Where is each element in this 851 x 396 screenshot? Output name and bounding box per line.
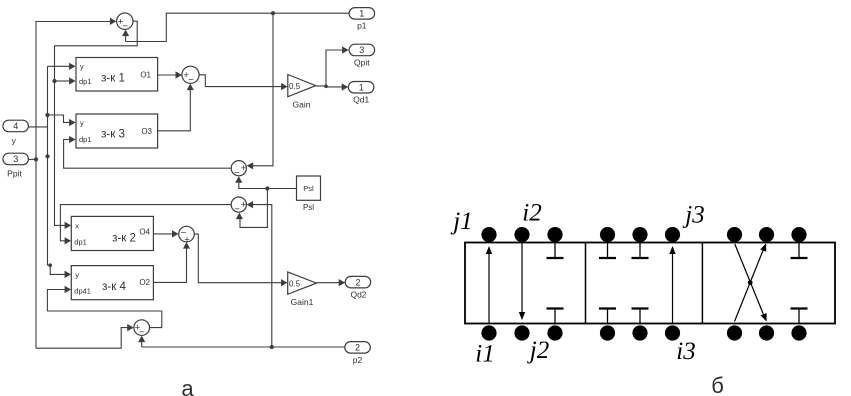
contact dots bottom row <box>481 325 806 340</box>
block B3 (з-к 3) <box>76 114 158 148</box>
wire S2 output to Gain input <box>199 75 288 90</box>
svg-text:−: − <box>234 168 240 179</box>
wire p1 net to S1 minus input <box>122 30 129 42</box>
input port 4 (y) <box>3 120 29 145</box>
svg-text:Qd2: Qd2 <box>350 290 366 300</box>
wire y-rail to B4 y input <box>48 265 72 278</box>
svg-text:O1: O1 <box>140 71 151 80</box>
svg-text:Qd1: Qd1 <box>353 95 369 105</box>
svg-text:−: − <box>188 75 194 86</box>
svg-text:0.5: 0.5 <box>289 280 301 289</box>
output port 2 (Qd2) <box>345 276 371 299</box>
label i1 <box>475 341 494 368</box>
wire Gain output junction <box>316 85 328 89</box>
wire Ppit port stub <box>29 158 37 160</box>
terminal stub bottom 2b <box>632 309 649 324</box>
wire Psl to S4 minus input <box>236 189 268 228</box>
svg-text:Psl: Psl <box>303 184 314 193</box>
svg-text:y: y <box>12 136 17 146</box>
svg-text:dp1: dp1 <box>79 135 92 144</box>
wire S3 output to B3 dp1 input <box>64 136 232 168</box>
node p2 junction <box>270 345 274 349</box>
svg-text:dp1: dp1 <box>74 238 87 247</box>
svg-text:Qpit: Qpit <box>354 58 370 68</box>
terminal stub top 2a <box>599 243 616 259</box>
wire Gain to Qd1 port <box>326 83 348 90</box>
label i2 <box>522 200 541 227</box>
wire p2 to S6 minus input <box>138 336 145 347</box>
svg-text:Gain: Gain <box>293 100 311 110</box>
terminal stub bottom 2a <box>599 309 616 324</box>
wire S5 output to Gain1 input <box>194 234 287 286</box>
svg-text:y: y <box>75 271 79 280</box>
wire p1 net horizontal <box>126 13 349 41</box>
output port 2 (p2) <box>345 342 371 365</box>
svg-text:O4: O4 <box>139 228 150 237</box>
commutator body rectangle <box>465 243 835 324</box>
label a <box>181 376 194 396</box>
wire O4 to S5 left input <box>153 230 178 237</box>
node y-rail bottom corner <box>48 263 52 267</box>
wire O3 to S2 minus input <box>158 84 194 131</box>
svg-text:2: 2 <box>355 277 360 287</box>
output port 1 (Qd1) <box>348 82 374 105</box>
up arrow i3-j3 <box>669 246 675 324</box>
node Ppit junction <box>34 157 38 161</box>
node y-rail junction lower <box>45 154 49 158</box>
wire Gain to Qpit port <box>326 46 349 86</box>
up arrow j1-i1 <box>486 246 492 324</box>
svg-text:1: 1 <box>359 9 364 19</box>
section divider 1 <box>585 243 587 324</box>
cross junction <box>748 280 753 285</box>
section divider 2 <box>701 243 703 324</box>
svg-text:2: 2 <box>355 343 360 353</box>
wire S6 output to B4 dp41 input <box>47 286 161 328</box>
block B2 (з-к 2) <box>71 216 153 250</box>
wire y-rail to B1 y input <box>48 63 76 70</box>
svg-text:0.5: 0.5 <box>289 82 301 91</box>
svg-text:p1: p1 <box>357 21 367 31</box>
svg-text:i1: i1 <box>475 341 494 368</box>
label i3 <box>676 338 695 365</box>
sum block S3 <box>231 161 246 179</box>
wire y-rail to B3 y input <box>48 115 76 126</box>
svg-text:Ppit: Ppit <box>7 169 22 179</box>
wire y-rail vertical <box>47 66 49 265</box>
block B4 (з-к 4) <box>71 266 153 300</box>
svg-text:dp41: dp41 <box>74 287 91 296</box>
terminal stub top 3c <box>791 243 808 259</box>
svg-text:3: 3 <box>13 154 18 164</box>
svg-text:з-к 2: з-к 2 <box>112 233 136 245</box>
wire Ppit rail to S6 left input <box>36 324 134 348</box>
svg-text:j1: j1 <box>450 208 472 235</box>
label j3 <box>682 201 704 228</box>
wire p2 net horizontal <box>142 346 345 348</box>
wire dp1 rail to B1 dp1 input <box>55 77 76 84</box>
wire p1 feedback to S3 right input <box>247 13 273 169</box>
svg-text:з-к 3: з-к 3 <box>101 129 125 141</box>
svg-text:+: + <box>241 163 247 174</box>
svg-text:а: а <box>181 376 194 396</box>
wire S4 output to B2 dp1 input <box>60 205 231 245</box>
label b <box>711 373 724 396</box>
svg-text:dp1: dp1 <box>79 77 92 86</box>
terminal stub top 2b <box>632 243 649 259</box>
contact dots top row <box>481 227 806 242</box>
output port 1 (p1) <box>349 8 375 31</box>
svg-text:O2: O2 <box>139 278 150 287</box>
wire S1 output to dp1 rail <box>55 21 138 229</box>
input port 3 (Ppit) <box>3 153 29 178</box>
sum block S4 <box>231 197 246 215</box>
node y-rail junction B3 <box>45 113 49 117</box>
wire p2 feedback to S4 right input <box>247 201 272 347</box>
output port 3 (Qpit) <box>349 44 375 67</box>
gain block Gain (0.5) <box>288 75 316 110</box>
node dp1 rail junction <box>52 79 56 83</box>
svg-text:4: 4 <box>13 121 18 131</box>
node p1 junction <box>271 11 275 15</box>
label j2 <box>527 337 549 364</box>
wire O2 to S5 bottom input <box>153 242 190 282</box>
gain block Gain1 (0.5) <box>288 272 317 307</box>
svg-text:з-к 1: з-к 1 <box>101 73 125 85</box>
svg-text:y: y <box>80 62 84 71</box>
wire Psl output to S3 minus input <box>235 176 296 188</box>
wire Ppit rail to S1 plus input <box>36 18 116 348</box>
svg-text:y: y <box>80 119 84 128</box>
svg-text:+: + <box>241 199 247 210</box>
svg-text:j2: j2 <box>527 337 549 364</box>
terminal stub top 1c <box>547 243 564 259</box>
svg-text:б: б <box>711 373 724 396</box>
svg-text:Psl: Psl <box>303 203 314 212</box>
sum block S6 <box>134 320 150 338</box>
block B1 (з-к 1) <box>76 58 158 92</box>
wire port4 y to y-rail <box>29 126 48 128</box>
terminal stub bottom 1c <box>547 309 564 324</box>
terminal stub bottom 3c <box>791 309 808 324</box>
svg-text:3: 3 <box>359 45 364 55</box>
svg-text:1: 1 <box>359 83 364 93</box>
svg-text:x: x <box>75 222 79 231</box>
sum block S5 <box>179 226 195 245</box>
svg-text:Gain1: Gain1 <box>291 297 314 307</box>
constant block Psl <box>297 176 321 212</box>
svg-text:O3: O3 <box>141 127 152 136</box>
down arrow i2-j2 <box>519 243 525 321</box>
sum block S2 <box>182 66 199 85</box>
svg-text:p2: p2 <box>353 355 363 365</box>
svg-text:i3: i3 <box>676 338 695 365</box>
svg-text:i2: i2 <box>522 200 541 227</box>
sum block S1 <box>117 13 133 32</box>
wire O1 to S2 plus input <box>158 71 182 78</box>
svg-text:j3: j3 <box>682 201 704 228</box>
node Psl junction <box>265 186 269 190</box>
wire Gain1 output to Qd2 port <box>316 279 345 286</box>
cross arrow falling <box>735 244 767 322</box>
label j1 <box>450 208 472 235</box>
svg-text:з-к 4: з-к 4 <box>102 281 126 293</box>
cross arrow rising <box>735 243 767 321</box>
